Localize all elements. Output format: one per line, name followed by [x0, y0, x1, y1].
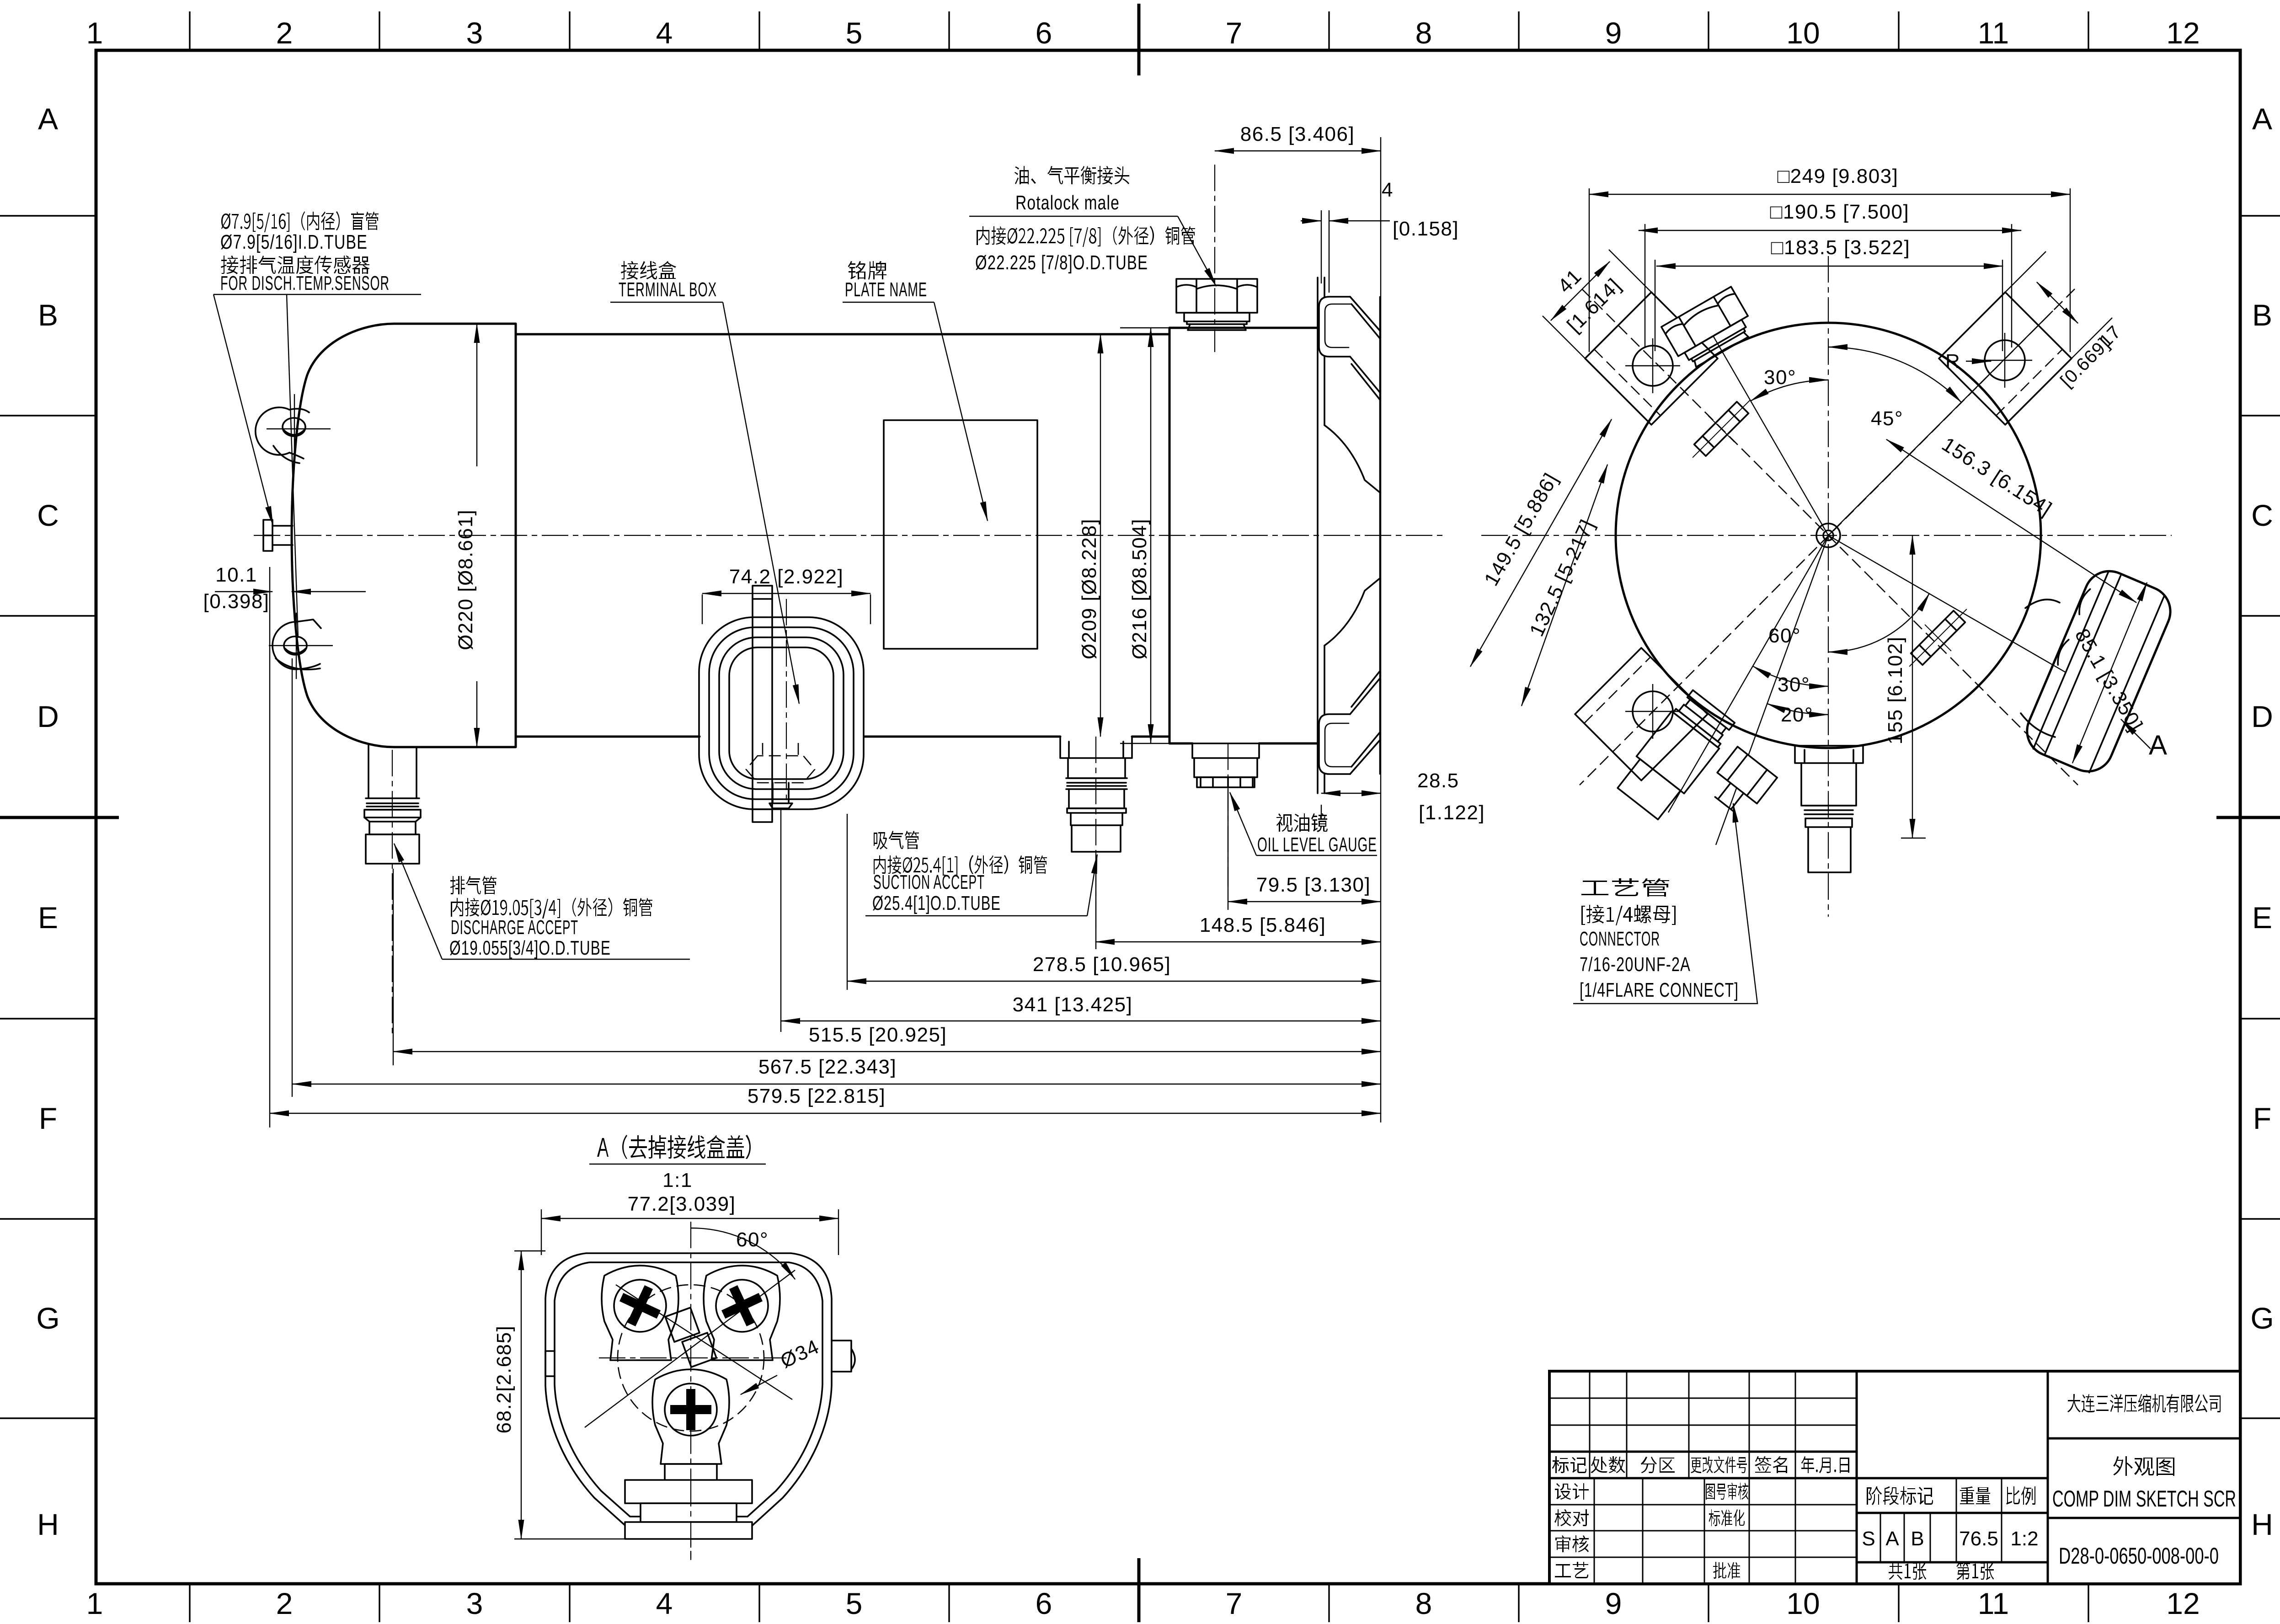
svg-text:C: C	[37, 498, 59, 532]
svg-text:68.2[2.685]: 68.2[2.685]	[493, 1325, 515, 1434]
svg-text:9: 9	[1605, 16, 1622, 50]
svg-text:148.5 [5.846]: 148.5 [5.846]	[1200, 914, 1326, 936]
svg-text:8: 8	[1415, 1587, 1432, 1620]
svg-text:[1/4FLARE CONNECT]: [1/4FLARE CONNECT]	[1580, 979, 1739, 1001]
svg-text:□183.5 [3.522]: □183.5 [3.522]	[1771, 236, 1910, 259]
svg-text:341 [13.425]: 341 [13.425]	[1013, 994, 1133, 1016]
svg-text:4: 4	[656, 1587, 673, 1620]
svg-text:D: D	[2251, 700, 2273, 733]
svg-text:12: 12	[2166, 16, 2200, 50]
svg-text:Rotalock male: Rotalock male	[1015, 192, 1120, 214]
svg-text:9: 9	[1605, 1587, 1622, 1620]
svg-text:5: 5	[846, 1587, 863, 1620]
svg-text:10: 10	[1786, 16, 1820, 50]
svg-text:3: 3	[466, 16, 483, 50]
svg-text:6: 6	[1036, 1587, 1052, 1620]
svg-text:7: 7	[1226, 1587, 1243, 1620]
svg-text:8: 8	[1415, 16, 1432, 50]
svg-text:6: 6	[1036, 16, 1052, 50]
svg-text:F: F	[2253, 1101, 2271, 1135]
svg-text:10.1: 10.1	[215, 564, 257, 586]
svg-text:7/16-20UNF-2A: 7/16-20UNF-2A	[1580, 953, 1691, 976]
svg-text:Ø22.225 [7/8]O.D.TUBE: Ø22.225 [7/8]O.D.TUBE	[975, 251, 1148, 274]
svg-text:CONNECTOR: CONNECTOR	[1580, 928, 1660, 950]
svg-text:74.2 [2.922]: 74.2 [2.922]	[729, 566, 844, 588]
svg-text:579.5 [22.815]: 579.5 [22.815]	[748, 1085, 886, 1107]
svg-text:1: 1	[86, 16, 103, 50]
svg-text:[0.398]: [0.398]	[203, 590, 269, 613]
svg-text:11: 11	[1978, 1587, 2009, 1620]
svg-text:45°: 45°	[1871, 407, 1903, 430]
svg-text:PLATE NAME: PLATE NAME	[845, 278, 927, 301]
svg-text:Ø19.055[3/4]O.D.TUBE: Ø19.055[3/4]O.D.TUBE	[449, 937, 611, 959]
svg-text:C: C	[2251, 498, 2273, 532]
svg-text:G: G	[36, 1301, 59, 1335]
svg-text:Ø209 [Ø8.228]: Ø209 [Ø8.228]	[1078, 518, 1100, 659]
svg-text:7: 7	[1226, 16, 1243, 50]
svg-text:1:2: 1:2	[2010, 1528, 2038, 1550]
svg-text:Ø216 [Ø8.504]: Ø216 [Ø8.504]	[1128, 518, 1151, 659]
svg-text:A: A	[2149, 730, 2167, 760]
svg-text:D: D	[37, 700, 59, 733]
svg-text:Ø7.9[5/16]I.D.TUBE: Ø7.9[5/16]I.D.TUBE	[220, 231, 368, 253]
svg-text:□249 [9.803]: □249 [9.803]	[1778, 165, 1899, 187]
svg-text:4: 4	[1382, 179, 1394, 201]
svg-text:Ø25.4[1]O.D.TUBE: Ø25.4[1]O.D.TUBE	[872, 892, 1001, 914]
svg-text:B: B	[1911, 1528, 1924, 1550]
svg-text:77.2[3.039]: 77.2[3.039]	[628, 1193, 736, 1215]
svg-text:3: 3	[466, 1587, 483, 1620]
svg-text:B: B	[38, 298, 58, 332]
svg-text:79.5 [3.130]: 79.5 [3.130]	[1256, 874, 1371, 896]
svg-text:[1.122]: [1.122]	[1419, 801, 1485, 824]
svg-text:20°: 20°	[1781, 704, 1813, 726]
svg-text:10: 10	[1786, 1587, 1820, 1620]
svg-text:1:1: 1:1	[662, 1169, 693, 1191]
svg-text:A: A	[38, 102, 58, 136]
svg-text:OIL LEVEL GAUGE: OIL LEVEL GAUGE	[1257, 833, 1377, 856]
svg-text:A: A	[2252, 102, 2272, 136]
svg-text:H: H	[2251, 1507, 2273, 1541]
svg-text:A: A	[1885, 1528, 1899, 1550]
svg-text:28.5: 28.5	[1417, 769, 1459, 792]
svg-text:F: F	[39, 1101, 57, 1135]
svg-text:60°: 60°	[736, 1229, 769, 1251]
svg-text:S: S	[1862, 1528, 1875, 1550]
svg-text:B: B	[2252, 298, 2272, 332]
svg-text:11: 11	[1978, 16, 2009, 50]
svg-text:2: 2	[276, 1587, 293, 1620]
svg-text:[0.158]: [0.158]	[1393, 218, 1459, 240]
svg-text:Ø220 [Ø8.661]: Ø220 [Ø8.661]	[454, 509, 477, 650]
svg-text:E: E	[38, 901, 58, 935]
svg-text:H: H	[37, 1507, 59, 1541]
svg-text:12: 12	[2166, 1587, 2200, 1620]
svg-text:30°: 30°	[1764, 366, 1796, 389]
svg-text:76.5: 76.5	[1959, 1528, 1998, 1550]
svg-text:4: 4	[656, 16, 673, 50]
svg-text:5: 5	[846, 16, 863, 50]
svg-text:□190.5 [7.500]: □190.5 [7.500]	[1770, 201, 1909, 223]
svg-text:567.5 [22.343]: 567.5 [22.343]	[758, 1056, 897, 1078]
svg-text:DISCHARGE ACCEPT: DISCHARGE ACCEPT	[451, 916, 578, 939]
svg-text:86.5 [3.406]: 86.5 [3.406]	[1240, 123, 1355, 145]
svg-text:R: R	[1945, 350, 1960, 373]
svg-text:1: 1	[86, 1587, 103, 1620]
svg-text:E: E	[2252, 901, 2272, 935]
svg-text:TERMINAL BOX: TERMINAL BOX	[619, 278, 717, 301]
svg-text:2: 2	[276, 16, 293, 50]
svg-text:COMP DIM SKETCH SCR: COMP DIM SKETCH SCR	[2052, 1486, 2236, 1512]
svg-text:60°: 60°	[1768, 625, 1801, 647]
svg-text:SUCTION ACCEPT: SUCTION ACCEPT	[873, 871, 985, 893]
svg-text:D28-0-0650-008-00-0: D28-0-0650-008-00-0	[2059, 1543, 2219, 1569]
svg-text:278.5 [10.965]: 278.5 [10.965]	[1033, 953, 1171, 976]
svg-text:515.5 [20.925]: 515.5 [20.925]	[809, 1024, 947, 1046]
svg-text:FOR DISCH.TEMP.SENSOR: FOR DISCH.TEMP.SENSOR	[220, 272, 390, 294]
svg-text:155 [6.102]: 155 [6.102]	[1884, 636, 1906, 745]
svg-text:G: G	[2250, 1301, 2274, 1335]
svg-text:30°: 30°	[1778, 673, 1810, 696]
